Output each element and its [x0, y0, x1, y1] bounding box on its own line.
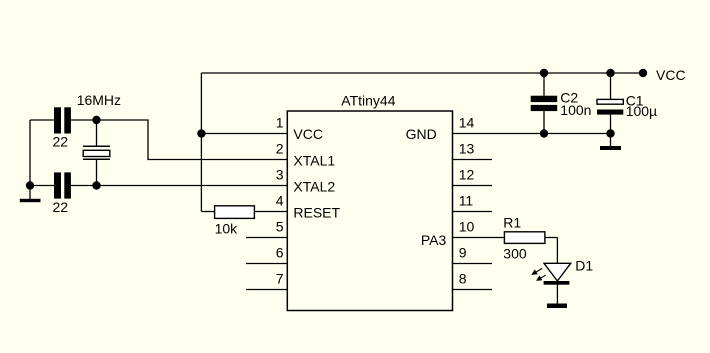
capacitor C2 [531, 73, 558, 134]
svg-text:22: 22 [53, 134, 69, 150]
svg-text:VCC: VCC [656, 67, 686, 83]
ground (left, below 22pF caps) [20, 186, 41, 203]
svg-text:12: 12 [459, 166, 475, 182]
capacitor 22 (bottom) [30, 172, 97, 198]
svg-text:1: 1 [276, 114, 284, 130]
svg-text:ATtiny44: ATtiny44 [341, 93, 395, 109]
node: junction C1 bottom / GND run [606, 129, 614, 137]
wire: pin 11 stub [453, 211, 493, 213]
svg-text:13: 13 [459, 140, 475, 156]
capacitor C1 (electrolytic) [597, 73, 623, 134]
wire: R1 down to LED anode [556, 238, 558, 264]
svg-text:R1: R1 [503, 214, 521, 230]
node: junction C2 top [540, 69, 548, 77]
svg-text:XTAL1: XTAL1 [293, 152, 335, 168]
node: junction left ground [26, 181, 34, 189]
svg-text:300: 300 [503, 245, 527, 261]
svg-text:7: 7 [276, 270, 284, 286]
wire: pin 6 stub [246, 263, 287, 265]
node: junction C2 bottom / GND run [540, 129, 548, 137]
resistor 10k [201, 206, 287, 219]
wire: pin 7 stub [246, 289, 287, 291]
IC U1 ATtiny44 body [287, 111, 452, 311]
wire: pin 9 stub [453, 263, 493, 265]
svg-text:10k: 10k [215, 220, 239, 236]
node: junction C1 top [606, 69, 614, 77]
svg-text:GND: GND [406, 126, 437, 142]
wire: pin 13 stub [453, 159, 493, 161]
wire: LED cathode to ground [556, 285, 558, 304]
wire: top cap to XTAL1 jog [97, 120, 288, 160]
svg-text:100n: 100n [560, 102, 591, 118]
wire: VCC top rail [201, 72, 643, 74]
svg-text:4: 4 [276, 192, 284, 208]
svg-text:XTAL2: XTAL2 [293, 178, 335, 194]
crystal 16MHz [83, 120, 110, 186]
svg-text:RESET: RESET [293, 204, 340, 220]
wire: VCC vertical drop to 10k [200, 73, 202, 212]
wire: left vertical bus x=30 [29, 120, 31, 186]
svg-text:22: 22 [53, 199, 69, 215]
svg-text:3: 3 [276, 166, 284, 182]
svg-text:10: 10 [459, 218, 475, 234]
wire: pin 1 VCC [201, 133, 287, 135]
node: junction top cap / crystal [92, 116, 100, 124]
svg-text:PA3: PA3 [421, 232, 447, 248]
ground (below C1) [600, 134, 621, 151]
svg-text:16MHz: 16MHz [77, 92, 121, 108]
svg-text:11: 11 [459, 192, 474, 208]
svg-text:9: 9 [459, 244, 467, 260]
svg-text:5: 5 [276, 218, 284, 234]
wire: XTAL2 run to pin 3 [97, 185, 288, 187]
svg-text:6: 6 [276, 244, 284, 260]
svg-text:14: 14 [459, 114, 475, 130]
wire: pin 5 stub [246, 237, 287, 239]
light arrows of D1 [533, 268, 542, 274]
node: junction VCC / pin1 [197, 129, 205, 137]
wire: pin 14 GND run [453, 133, 611, 135]
svg-text:8: 8 [459, 270, 467, 286]
wire: pin 10 PA3 to R1 [453, 237, 505, 239]
svg-text:D1: D1 [575, 258, 593, 274]
capacitor 22 (top) [30, 107, 97, 133]
resistor R1 [504, 232, 557, 244]
node: junction bottom cap / crystal / XTAL2 [92, 181, 100, 189]
svg-text:VCC: VCC [293, 126, 323, 142]
LED D1 [531, 263, 570, 284]
svg-text:2: 2 [276, 140, 284, 156]
wire: pin 8 stub [453, 289, 493, 291]
svg-text:100µ: 100µ [626, 103, 657, 119]
ground (below D1) [547, 304, 567, 309]
node: VCC terminal [639, 69, 647, 77]
wire: pin 12 stub [453, 185, 493, 187]
